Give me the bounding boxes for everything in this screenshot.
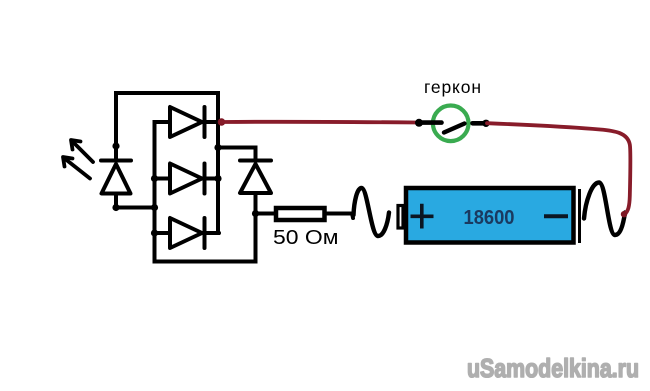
wire outer loop: left rail / top rail / right rail [116,93,218,233]
battery minus sign [544,214,568,218]
reed switch ring [433,106,469,142]
diode D3 (bottom) [155,218,220,248]
diode D5 (right) [240,161,271,194]
battery plus sign [411,204,434,229]
wire to right diode cathode [218,148,256,161]
junction dot on LED branch [112,142,119,149]
reed switch right contact [473,121,485,126]
watermark uSamodelkina.ru [467,353,639,383]
junction dot inner rail bottom diode [151,229,158,236]
wire inner loop: inner-left rail / bottom rail / right diode branch [155,122,256,262]
wire resistor to flexible lead [327,214,353,219]
wire red: reed switch to battery [487,123,630,217]
label геркон [424,77,481,97]
junction dot inner rail middle [151,175,158,182]
junction dot inner rail at LED wire [151,204,158,211]
led light arrow 1 [71,140,93,162]
reed switch left contact [415,119,423,127]
battery body [406,188,574,243]
svg-text:uSamodelkina.ru: uSamodelkina.ru [467,353,639,383]
wire LED anode to inner rail [116,194,155,208]
flexible wire squiggle right [584,183,625,236]
reed switch S1 [415,106,490,142]
diode D1 (top) [155,107,219,137]
svg-text:18600: 18600 [464,207,515,229]
junction node to resistor [252,210,259,217]
resistor R1 [276,208,325,220]
junction dot right rail upper [214,144,221,151]
junction dot LED bottom [112,204,119,211]
wire red: rectifier to reed switch [218,118,417,126]
battery right end line [578,189,581,243]
reed switch lever [444,124,465,133]
label 50 Ом [273,226,339,249]
flexible wire squiggle left [354,188,390,236]
led D4 [101,161,131,194]
diode D2 (middle) [155,164,219,194]
battery positive nub [398,206,403,229]
junction dot right rail middle [214,175,221,182]
led light arrow 2 [63,157,90,179]
wire junction to resistor [256,212,278,216]
svg-text:50 Ом: 50 Ом [273,226,339,249]
svg-text:геркон: геркон [424,77,481,97]
battery BT1 18650 cell [398,188,580,243]
